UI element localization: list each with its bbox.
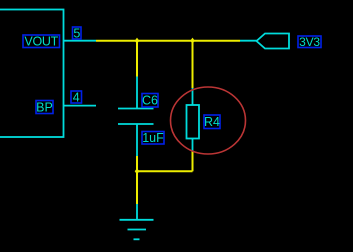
- label R4: [204, 115, 220, 129]
- pin 4 stub: [63, 105, 96, 107]
- C6 bottom lead: [136, 124, 138, 156]
- pin 5 stub: [63, 40, 96, 42]
- pin number 5: [73, 26, 82, 40]
- resistor R4 body: [187, 105, 200, 139]
- power symbol 3V3 (pentagon tag): [257, 34, 290, 49]
- wire to ground (yellow part): [136, 171, 138, 204]
- wire C6 to bottom net (yellow part): [136, 156, 138, 171]
- svg-text:1uF: 1uF: [142, 131, 164, 145]
- svg-text:C6: C6: [142, 94, 158, 108]
- value 1uF: [142, 131, 164, 145]
- wire junction to C6 (yellow part): [136, 41, 138, 77]
- pin number 4: [71, 90, 82, 104]
- bottom net horizontal wire: [137, 170, 193, 172]
- pin name BP: [36, 100, 53, 114]
- pin name VOUT: [23, 35, 60, 49]
- svg-text:5: 5: [73, 26, 80, 40]
- wire junction to R4 (yellow part): [192, 41, 194, 88]
- R4 top lead: [192, 88, 194, 105]
- op-amp U1 (IC body, left edge off-canvas): [0, 10, 64, 138]
- net label 3V3: [298, 35, 321, 49]
- wire R4 junction to 3V3 (yellow) already drawn; cyan stub to power symbol: [240, 40, 257, 42]
- ground lead: [136, 204, 138, 220]
- label C6: [142, 94, 158, 108]
- wire VOUT net horizontal: [96, 40, 240, 42]
- R4 bottom lead: [192, 139, 194, 152]
- svg-text:3V3: 3V3: [299, 35, 320, 49]
- svg-text:VOUT: VOUT: [24, 35, 58, 49]
- svg-text:4: 4: [73, 90, 80, 104]
- svg-text:R4: R4: [204, 115, 220, 129]
- ground symbol: [120, 220, 154, 240]
- junction at ground branch: [135, 168, 140, 174]
- junction at R4 branch: [190, 38, 195, 44]
- svg-text:BP: BP: [36, 100, 53, 114]
- junction at C6 branch: [135, 38, 140, 44]
- annotation red circle around R4: [171, 87, 246, 154]
- wire R4 to bottom net (yellow part): [192, 152, 194, 172]
- capacitor C6 plates: [118, 108, 154, 110]
- C6 top lead: [136, 77, 138, 109]
